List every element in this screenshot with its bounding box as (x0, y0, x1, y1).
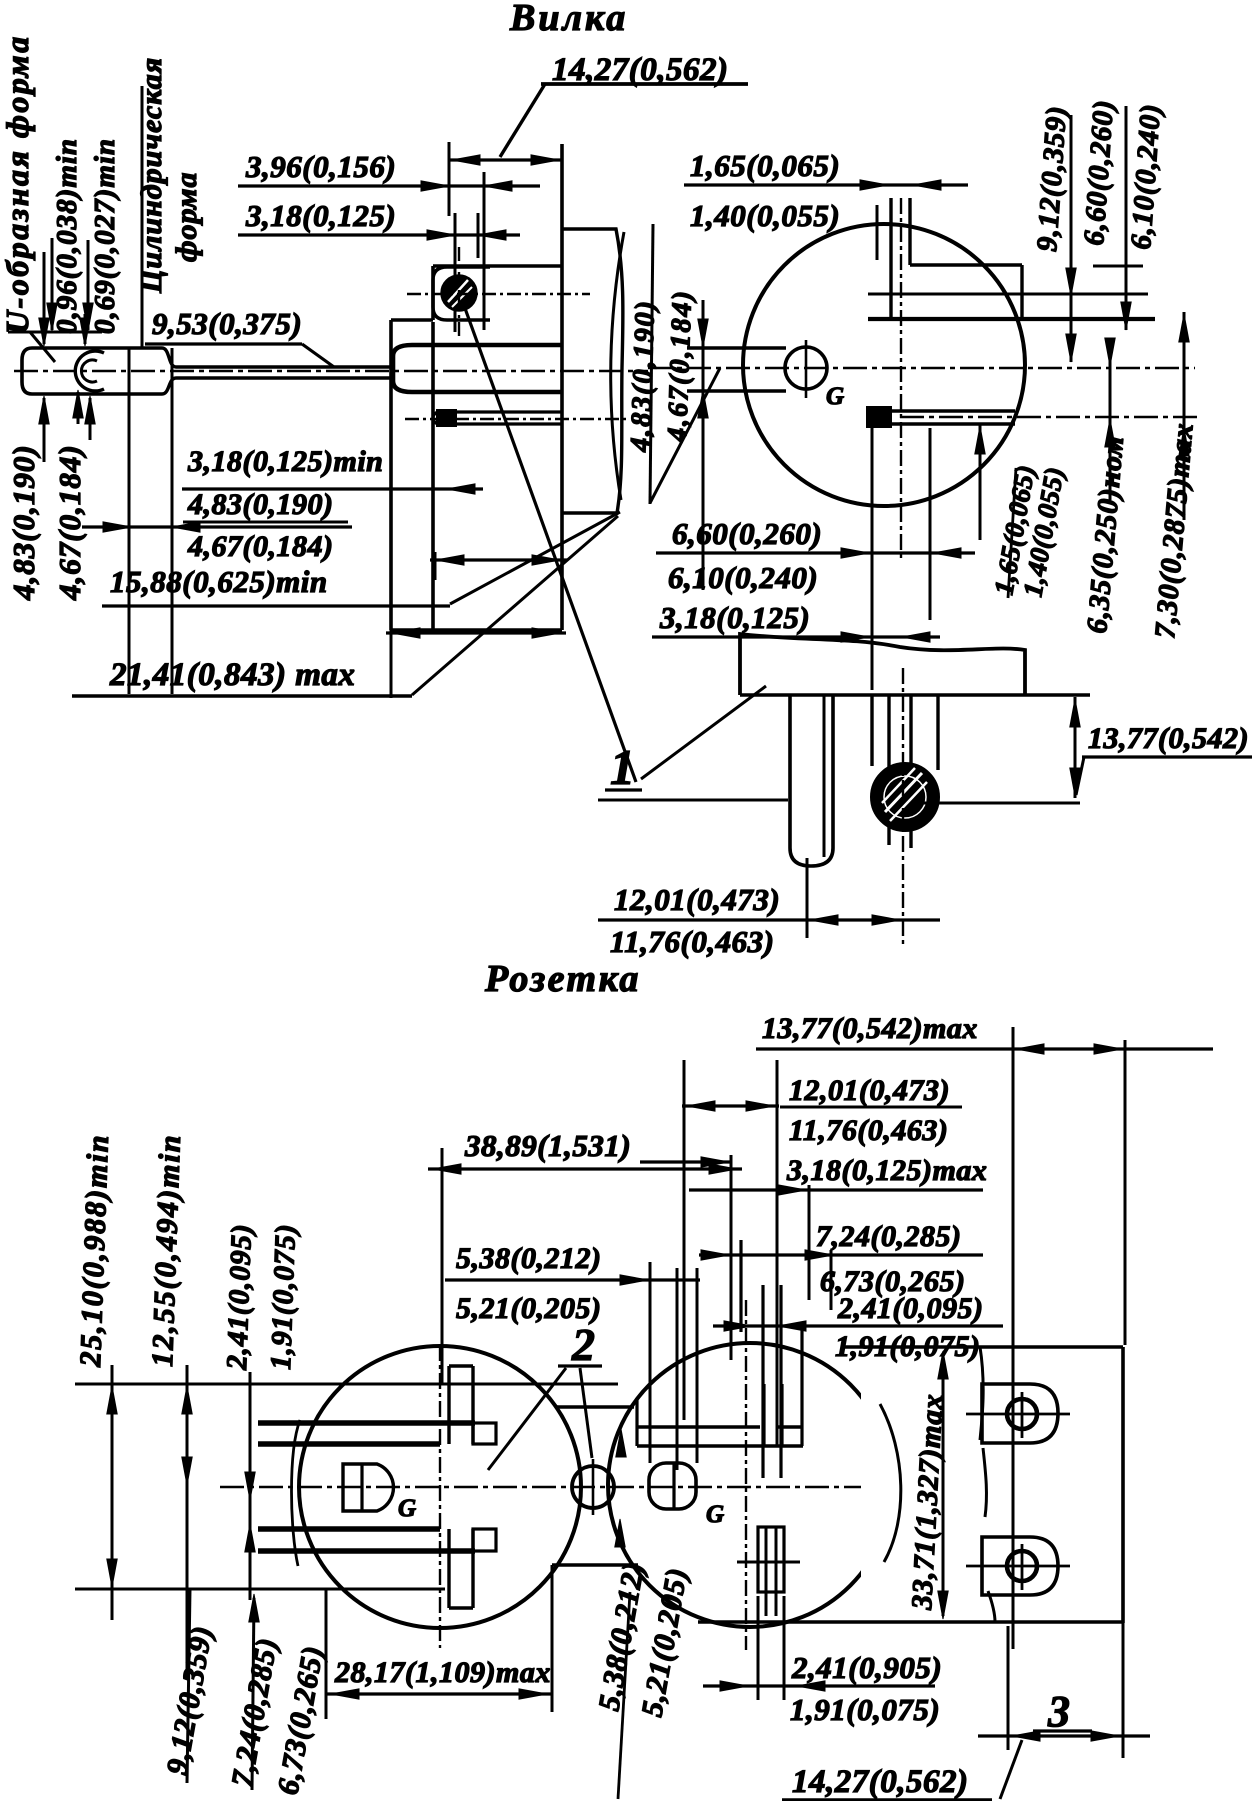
svg-text:2,41(0,905): 2,41(0,905) (791, 1650, 942, 1685)
svg-text:Розетка: Розетка (484, 958, 641, 1000)
svg-text:4,83(0,190): 4,83(0,190) (187, 488, 333, 521)
svg-text:1,91(0,075): 1,91(0,075) (265, 1223, 302, 1370)
svg-text:4,67(0,184): 4,67(0,184) (187, 530, 333, 563)
svg-text:4,83(0,190): 4,83(0,190) (625, 299, 661, 454)
svg-text:1,91(0,075): 1,91(0,075) (790, 1692, 940, 1727)
svg-text:2,41(0,095): 2,41(0,095) (221, 1223, 258, 1371)
svg-text:13,77(0,542)max: 13,77(0,542)max (762, 1012, 978, 1045)
svg-text:11,76(0,463): 11,76(0,463) (610, 924, 774, 959)
svg-text:38,89(1,531): 38,89(1,531) (464, 1128, 631, 1163)
svg-text:12,01(0,473): 12,01(0,473) (789, 1074, 950, 1107)
svg-text:13,77(0,542): 13,77(0,542) (1088, 722, 1249, 755)
svg-text:7,24(0,285): 7,24(0,285) (816, 1220, 961, 1253)
svg-text:12,01(0,473): 12,01(0,473) (614, 882, 780, 917)
svg-text:9,53(0,375): 9,53(0,375) (152, 306, 302, 341)
svg-text:15,88(0,625)min: 15,88(0,625)min (110, 564, 328, 599)
svg-text:Цилиндрическая: Цилиндрическая (135, 57, 168, 294)
svg-text:1,40(0,055): 1,40(0,055) (690, 198, 840, 233)
svg-text:3,18(0,125)max: 3,18(0,125)max (786, 1154, 987, 1187)
svg-text:3,18(0,125)min: 3,18(0,125)min (187, 445, 383, 478)
svg-text:3: 3 (1047, 1687, 1071, 1736)
svg-text:11,76(0,463): 11,76(0,463) (789, 1114, 948, 1147)
svg-text:4,67(0,184): 4,67(0,184) (52, 444, 87, 601)
svg-text:форма: форма (170, 171, 203, 262)
svg-text:6,60(0,260): 6,60(0,260) (672, 516, 822, 551)
svg-text:G: G (706, 1501, 725, 1528)
svg-text:1,91(0,075): 1,91(0,075) (835, 1330, 980, 1363)
svg-text:1,65(0,065): 1,65(0,065) (690, 148, 840, 183)
svg-text:G: G (398, 1495, 417, 1522)
svg-text:G: G (826, 383, 845, 410)
svg-text:3,18(0,125): 3,18(0,125) (659, 600, 810, 635)
svg-text:4,83(0,190): 4,83(0,190) (6, 444, 41, 601)
svg-text:0,69(0,027)min: 0,69(0,027)min (89, 138, 121, 334)
svg-text:U-образная форма: U-образная форма (0, 34, 35, 334)
svg-text:3,18(0,125): 3,18(0,125) (245, 198, 396, 233)
svg-text:6,10(0,240): 6,10(0,240) (668, 560, 818, 595)
svg-text:2: 2 (571, 1319, 596, 1370)
svg-text:5,21(0,205): 5,21(0,205) (456, 1292, 601, 1325)
svg-text:3,96(0,156): 3,96(0,156) (245, 149, 396, 184)
svg-text:21,41(0,843) max: 21,41(0,843) max (109, 657, 355, 693)
svg-text:Вилка: Вилка (509, 0, 628, 39)
svg-text:0,96(0,038)min: 0,96(0,038)min (51, 138, 83, 334)
svg-text:5,38(0,212): 5,38(0,212) (456, 1242, 601, 1275)
svg-text:2,41(0,095): 2,41(0,095) (837, 1292, 983, 1325)
svg-text:14,27(0,562): 14,27(0,562) (792, 1764, 968, 1800)
svg-text:28,17(1,109)max: 28,17(1,109)max (334, 1656, 551, 1689)
